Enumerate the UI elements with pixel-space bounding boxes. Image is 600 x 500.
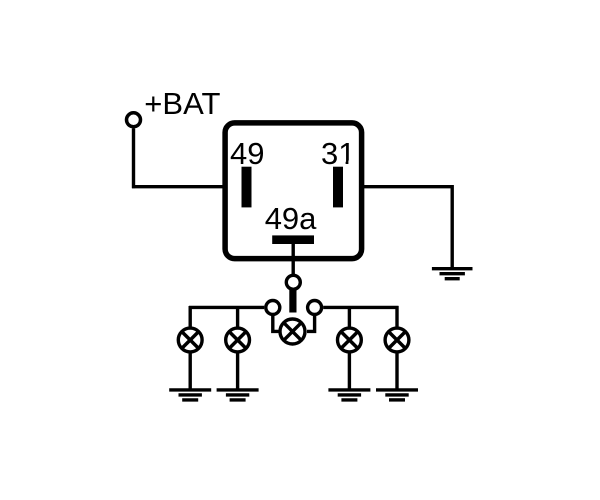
svg-text:49a: 49a xyxy=(265,201,317,236)
switch left contact circle xyxy=(266,301,280,315)
relay box U1 xyxy=(225,123,362,259)
wire lamp 4 to ground xyxy=(395,353,398,390)
svg-text:+BAT: +BAT xyxy=(144,86,220,121)
wire right branch xyxy=(323,306,398,309)
terminal 49a pin xyxy=(272,235,314,244)
battery terminal circle xyxy=(127,113,141,127)
wire 49a down to switch xyxy=(292,244,295,275)
ground under lamp 4 xyxy=(376,390,418,400)
wire left branch xyxy=(189,306,264,309)
wire lamp 2 to ground xyxy=(236,353,239,390)
wire drop lamp 1 xyxy=(188,306,191,328)
pilot lamp L5 xyxy=(280,319,305,344)
svg-text:31: 31 xyxy=(321,136,355,171)
wire drop lamp 2 xyxy=(236,306,239,328)
lamp L3 xyxy=(338,328,362,352)
ground under lamp 1 xyxy=(169,390,211,400)
ground for terminal 31 xyxy=(432,269,473,279)
wire to terminal 49 xyxy=(132,185,246,188)
switch pivot circle xyxy=(286,275,300,289)
ground under lamp 2 xyxy=(217,390,259,400)
lamp L1 xyxy=(178,328,202,352)
svg-text:49: 49 xyxy=(230,136,264,171)
wire bracket left contact to pilot lamp xyxy=(273,314,280,331)
lamp L4 xyxy=(385,328,409,352)
wire from terminal 31 to ground xyxy=(340,187,452,268)
terminal 31 pin xyxy=(333,167,343,208)
terminal 49 pin xyxy=(242,167,252,208)
ground under lamp 3 xyxy=(328,390,370,400)
wire lamp 1 to ground xyxy=(188,353,191,390)
switch right contact circle xyxy=(308,301,322,315)
wire from +BAT down xyxy=(132,128,135,188)
wire drop lamp 4 xyxy=(395,306,398,328)
wire bracket right contact to pilot lamp xyxy=(307,314,315,331)
lamp L2 xyxy=(226,328,250,352)
switch lever xyxy=(289,290,296,313)
wire lamp 3 to ground xyxy=(348,353,351,390)
wire drop lamp 3 xyxy=(348,306,351,328)
